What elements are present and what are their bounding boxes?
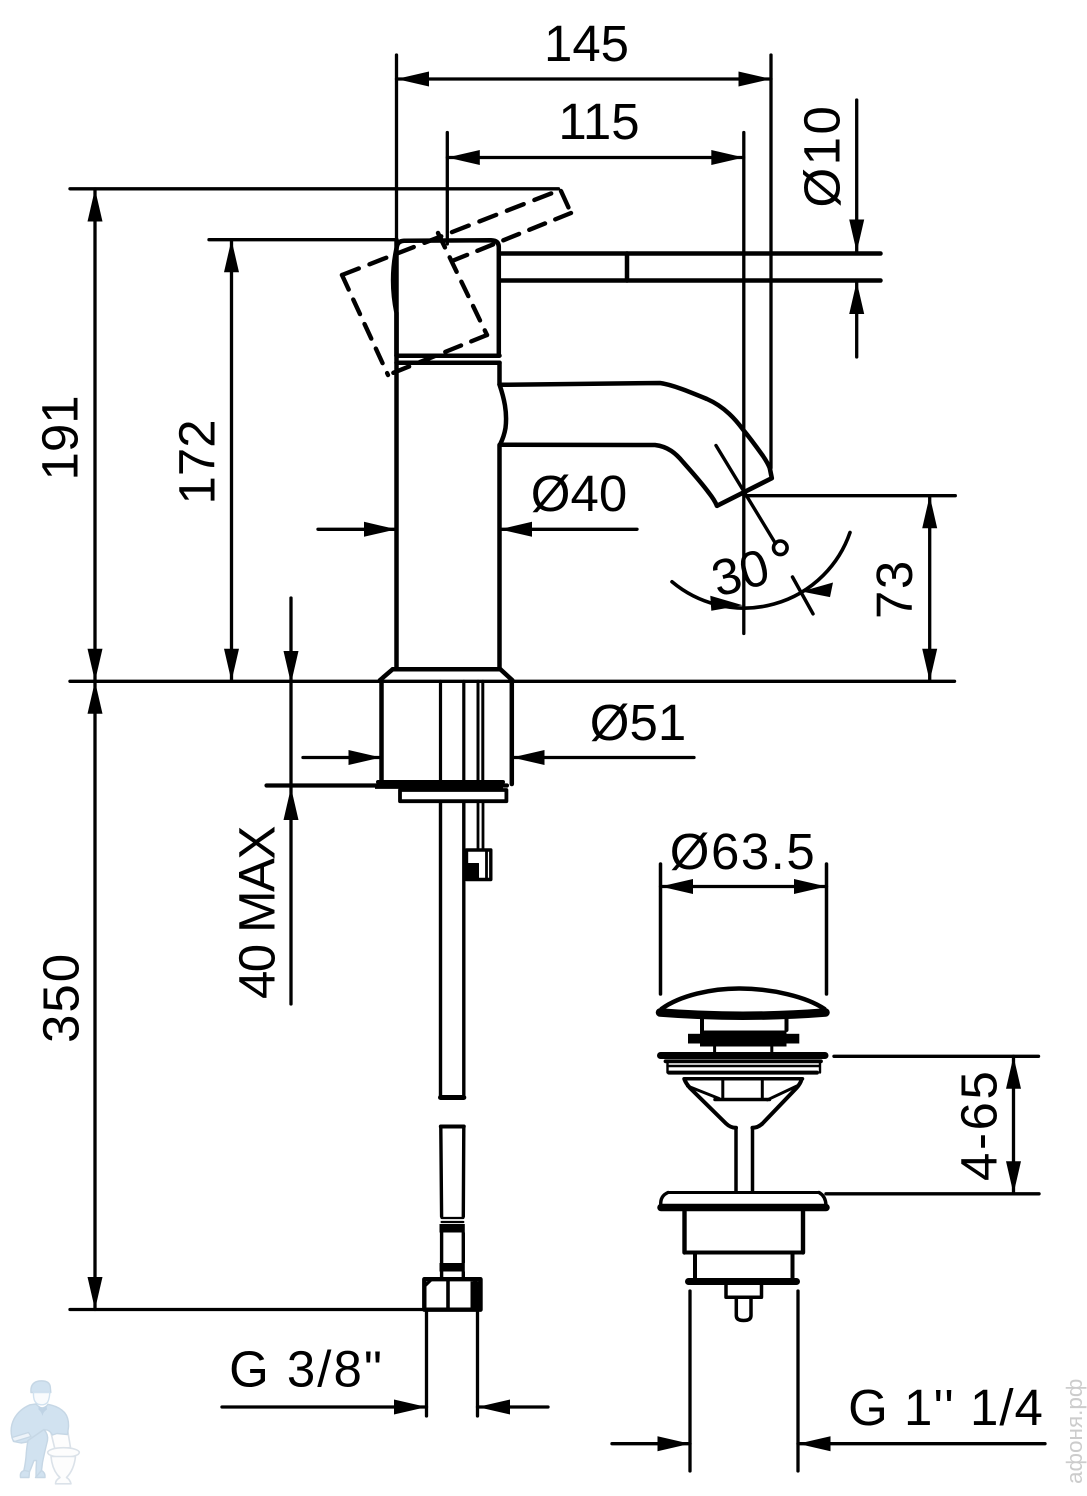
arrowhead 115 right [711,150,744,165]
svg-text:G 3/8": G 3/8" [229,1341,384,1398]
drain lock nut [685,1212,804,1321]
body left edge [394,240,399,669]
base bottom edge [378,780,503,784]
dimension line Ø51 [303,756,381,759]
stud clamp clip [466,850,491,880]
svg-text:Ø40: Ø40 [531,465,627,522]
plug pin [736,1297,751,1320]
drain flange line 2 [666,1059,822,1063]
plug stem left [713,1047,716,1053]
dimension line 172 [230,240,233,682]
extension line 172 top [209,238,397,241]
dimension line 145 [397,77,772,80]
extension line 4-65 top [834,1055,1039,1058]
hose segment 3 [440,1233,443,1264]
plug stem right [770,1047,773,1053]
arrowhead 4-65 top [1006,1056,1021,1089]
flare left side [380,669,393,680]
extension line 350 bottom baseline [70,1308,424,1311]
angle arc 30 degrees [672,533,850,609]
handle lever bottom [500,278,881,283]
funnel right side [753,1080,802,1128]
flare right side [500,669,512,680]
extension line G1-1/4 right [796,1291,799,1471]
dimension line 40MAX [289,598,292,1004]
svg-text:Ø51: Ø51 [590,694,686,751]
plug seal dark band [700,1031,787,1047]
hose segment 4 [440,1272,443,1280]
arrowhead Ø10 top [849,220,864,253]
hose seam lines [442,1217,464,1219]
extension line Ø63.5 right [825,864,829,994]
svg-text:172: 172 [169,419,226,504]
supply pipe right in base [462,681,465,785]
arrowhead 172 top [224,240,239,273]
hose collar band 1 [440,1224,465,1233]
svg-text:191: 191 [32,395,89,480]
threaded stud below flange [477,801,480,851]
svg-text:афоня.рф: афоня.рф [1062,1379,1087,1484]
drain flange side borders [666,1062,668,1073]
arrowhead 4-65 bottom [1006,1161,1021,1194]
dimension line Ø10 [855,100,858,252]
arrowhead G3/8 right [478,1400,511,1415]
arrowhead 191 bottom [88,649,103,682]
funnel inner diagonal right [768,1085,800,1100]
arrowhead Ø40 left [364,522,397,537]
threaded stud in base [477,681,480,785]
handle lever seam [625,254,630,281]
arrowhead 40MAX top [284,651,299,684]
base cylinder right [510,681,515,784]
tailpipe right [751,1128,755,1192]
handle box outline [393,240,499,355]
handle lever top [500,251,881,256]
arrowhead Ø51 right [512,750,545,765]
arrowhead Ø63.5 right [794,879,827,894]
dimension line G1-1/4 [612,1442,690,1445]
angle tick 30 degrees [793,577,814,614]
extension line 145 left / body axis [395,55,398,240]
extension line bottom shared 191/172/350/73 [70,680,955,683]
drain flange thin line [668,1065,820,1067]
funnel top edge [684,1077,803,1081]
svg-text:G 1'' 1/4: G 1'' 1/4 [848,1379,1044,1436]
spout root fillet [500,385,507,446]
G3/8 connection nut [424,1279,480,1310]
mounting flange under deck [375,788,506,802]
svg-text:Ø10: Ø10 [794,104,851,208]
extension line G1-1/4 left [688,1291,691,1471]
svg-text:4-65: 4-65 [951,1069,1008,1181]
arrowhead arc left at vertical [710,596,743,611]
extension line G3/8 right [476,1312,479,1416]
under-basin washer [661,1193,826,1208]
arrowhead 350 bottom [88,1277,103,1310]
handle box bottom seam [397,353,500,358]
funnel inner diagonal left [688,1086,720,1099]
arrowhead Ø10 bottom [849,282,864,315]
dimension line 115 [447,156,744,159]
supply pipe segment 2 [439,1127,443,1217]
degree symbol circle [774,541,788,555]
spout cut face [717,468,772,506]
svg-text:Ø63.5: Ø63.5 [670,823,816,880]
supply pipe left in base [439,681,442,785]
extension line 4-65 bottom [826,1192,1039,1195]
tailpipe left [734,1128,738,1192]
extension line 191 top [70,187,559,190]
funnel basket right vertical [761,1081,764,1098]
plug neck left [700,1014,704,1030]
arrowhead 73 bottom [922,649,937,682]
dimension line 191 [93,189,96,681]
arrowhead 145 left [397,72,430,87]
dashed handle open position [342,190,571,375]
body right edge lower [497,445,502,669]
dimension line Ø63.5 [661,885,827,888]
arrowhead 172 bottom [224,649,239,682]
svg-text:40 MAX: 40 MAX [229,827,286,999]
arrowhead 40MAX bottom [284,788,299,821]
plug pin step [726,1285,762,1298]
extension line 73 top [744,494,955,497]
drain flange bottom line [669,1071,817,1075]
flare top edge [393,667,501,672]
extension line 115 right / vertical reference through spout tip [742,133,745,634]
extension line 145 right [769,55,772,468]
svg-text:73: 73 [866,559,923,619]
arrowhead 350 top [88,681,103,714]
base cylinder left [379,681,384,784]
supply pipe segment 1 [439,801,442,1096]
extension line deck 40MAX bottom [267,783,508,787]
svg-text:115: 115 [558,93,639,150]
leader line 30 degrees [716,446,776,544]
arrowhead Ø51 left [349,750,382,765]
arrowhead 191 top [88,189,103,222]
extension line Ø63.5 left [659,864,663,994]
arrowhead 73 top [922,496,937,529]
drain flange thick bar [661,1052,826,1059]
arrowhead Ø40 right [500,522,533,537]
extension line G3/8 left [425,1312,428,1416]
hose collar band 2 [440,1263,465,1272]
body right edge upper [497,363,502,385]
funnel basket left vertical [721,1081,724,1098]
funnel left side [685,1080,737,1128]
arrowhead Ø63.5 left [661,879,694,894]
arrowhead G1-1/4 left [658,1436,691,1451]
drain cap dome [662,988,825,1009]
extension line 115 left [446,133,449,245]
svg-text:145: 145 [544,15,629,72]
arrowhead G1-1/4 right [798,1436,831,1451]
watermark plumber logo [11,1381,79,1484]
funnel basket bottom [715,1098,770,1102]
dimension line 4-65 [1012,1056,1015,1194]
dimension line Ø40 [318,528,397,531]
collar seam [397,360,500,365]
svg-text:350: 350 [33,952,90,1043]
spout bottom edge [500,445,717,506]
supply pipe break cap [441,1095,464,1100]
dimension line 73 [928,496,931,682]
dimension line 350 [93,681,96,1309]
arrowhead 145 right [739,72,772,87]
arrowhead G3/8 left [394,1400,427,1415]
arrowhead arc right at 30 tick [802,583,834,598]
dimension line G3/8 [222,1405,427,1408]
spout top edge [501,383,770,468]
arrowhead 115 left [447,150,480,165]
drain cap rim [660,1013,826,1016]
plug neck right [785,1014,789,1030]
